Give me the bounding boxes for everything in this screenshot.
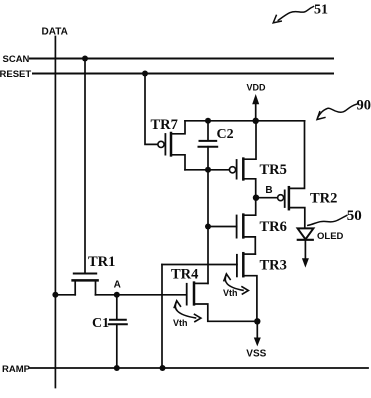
transistor TR5 (PMOS) (229, 121, 256, 198)
reference 50 leader squiggle (308, 215, 347, 225)
svg-text:C2: C2 (217, 127, 234, 142)
svg-text:Vth: Vth (223, 288, 238, 298)
capacitor C1 (109, 295, 127, 368)
wire DATA vertical line (54, 37, 56, 388)
svg-text:TR4: TR4 (171, 267, 198, 283)
svg-text:A: A (114, 279, 121, 290)
transistor TR2 (PMOS) (278, 121, 305, 229)
transistor TR4 (187, 283, 258, 322)
svg-text:RESET: RESET (0, 69, 31, 80)
junction VDD rail / arrow (253, 118, 259, 124)
junction node B (253, 195, 259, 201)
wire TR7 source / C2 bottom to TR5 gate (185, 169, 229, 171)
wire node B to TR2 gate (256, 197, 278, 199)
wire SCAN horizontal line (30, 58, 333, 60)
transistor TR7 (PMOS) (158, 121, 185, 170)
junction C2 bottom (205, 167, 211, 173)
junction VSS node (254, 318, 260, 324)
svg-text:VDD: VDD (247, 83, 267, 93)
svg-text:90: 90 (357, 97, 371, 113)
wire TR1 drain to node A to TR4 gate (96, 294, 187, 296)
junction DATA / TR1 source (52, 292, 58, 298)
wire TR3 gate line (162, 264, 237, 266)
junction mid vertical / TR6 gate (205, 224, 211, 230)
svg-text:TR7: TR7 (151, 117, 178, 133)
Vth arrow at TR3 (224, 274, 249, 294)
svg-text:TR6: TR6 (260, 219, 287, 235)
wire RAMP horizontal line (30, 367, 368, 369)
wire RESET horizontal line (33, 73, 333, 75)
svg-text:VSS: VSS (246, 348, 266, 359)
svg-text:51: 51 (314, 2, 328, 17)
wire mid vertical C2 bottom to TR4 drain (207, 170, 209, 284)
transistor TR3 (237, 253, 257, 321)
junction C1 / RAMP (114, 365, 120, 371)
svg-text:B: B (265, 185, 272, 196)
transistor TR6 (237, 198, 256, 254)
power VDD arrow (252, 94, 259, 121)
junction on SCAN at TR1 gate (82, 56, 88, 62)
svg-text:TR1: TR1 (88, 254, 115, 270)
svg-text:TR3: TR3 (260, 257, 287, 273)
svg-text:50: 50 (347, 208, 362, 224)
wire box left side to RAMP (161, 265, 163, 369)
svg-text:SCAN: SCAN (3, 54, 30, 65)
diode OLED (298, 228, 314, 267)
junction box / RAMP (160, 365, 166, 371)
svg-text:TR5: TR5 (260, 162, 287, 178)
power VSS arrow (254, 321, 261, 346)
junction node A (114, 292, 120, 298)
wire DATA to TR1 source (55, 294, 75, 296)
wire RESET to TR7 gate (145, 74, 158, 145)
capacitor C2 (199, 121, 218, 170)
svg-text:RAMP: RAMP (2, 364, 31, 375)
svg-text:Vth: Vth (173, 318, 188, 328)
junction on RESET at TR7 gate (142, 71, 148, 77)
wire SCAN to TR1 gate (84, 59, 86, 273)
svg-text:TR2: TR2 (310, 190, 337, 206)
svg-text:OLED: OLED (317, 231, 344, 242)
wire VDD rail (185, 120, 305, 122)
svg-text:C1: C1 (92, 316, 109, 331)
reference 51 leader squiggle (273, 7, 313, 23)
wire to TR6 gate (208, 226, 237, 228)
Vth arrow at TR4 (174, 301, 201, 322)
reference 90 leader squiggle (317, 104, 357, 119)
junction VDD rail / C2 (205, 118, 211, 124)
transistor TR1 (73, 274, 98, 295)
